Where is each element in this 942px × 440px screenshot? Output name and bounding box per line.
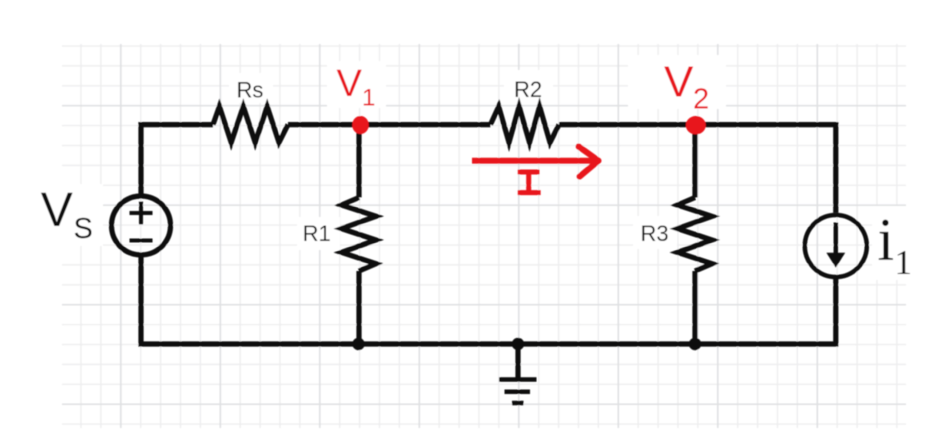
- svg-text:R2: R2: [514, 77, 542, 102]
- svg-text:1: 1: [895, 243, 913, 282]
- svg-text:V: V: [41, 184, 73, 237]
- svg-text:R1: R1: [303, 221, 331, 246]
- svg-text:R3: R3: [640, 221, 668, 246]
- svg-text:Rs: Rs: [237, 77, 264, 102]
- svg-text:2: 2: [693, 83, 709, 115]
- svg-text:V: V: [664, 58, 694, 107]
- svg-text:S: S: [74, 213, 93, 245]
- svg-text:1: 1: [362, 85, 375, 112]
- svg-text:i: i: [878, 207, 895, 273]
- svg-text:V: V: [337, 63, 363, 105]
